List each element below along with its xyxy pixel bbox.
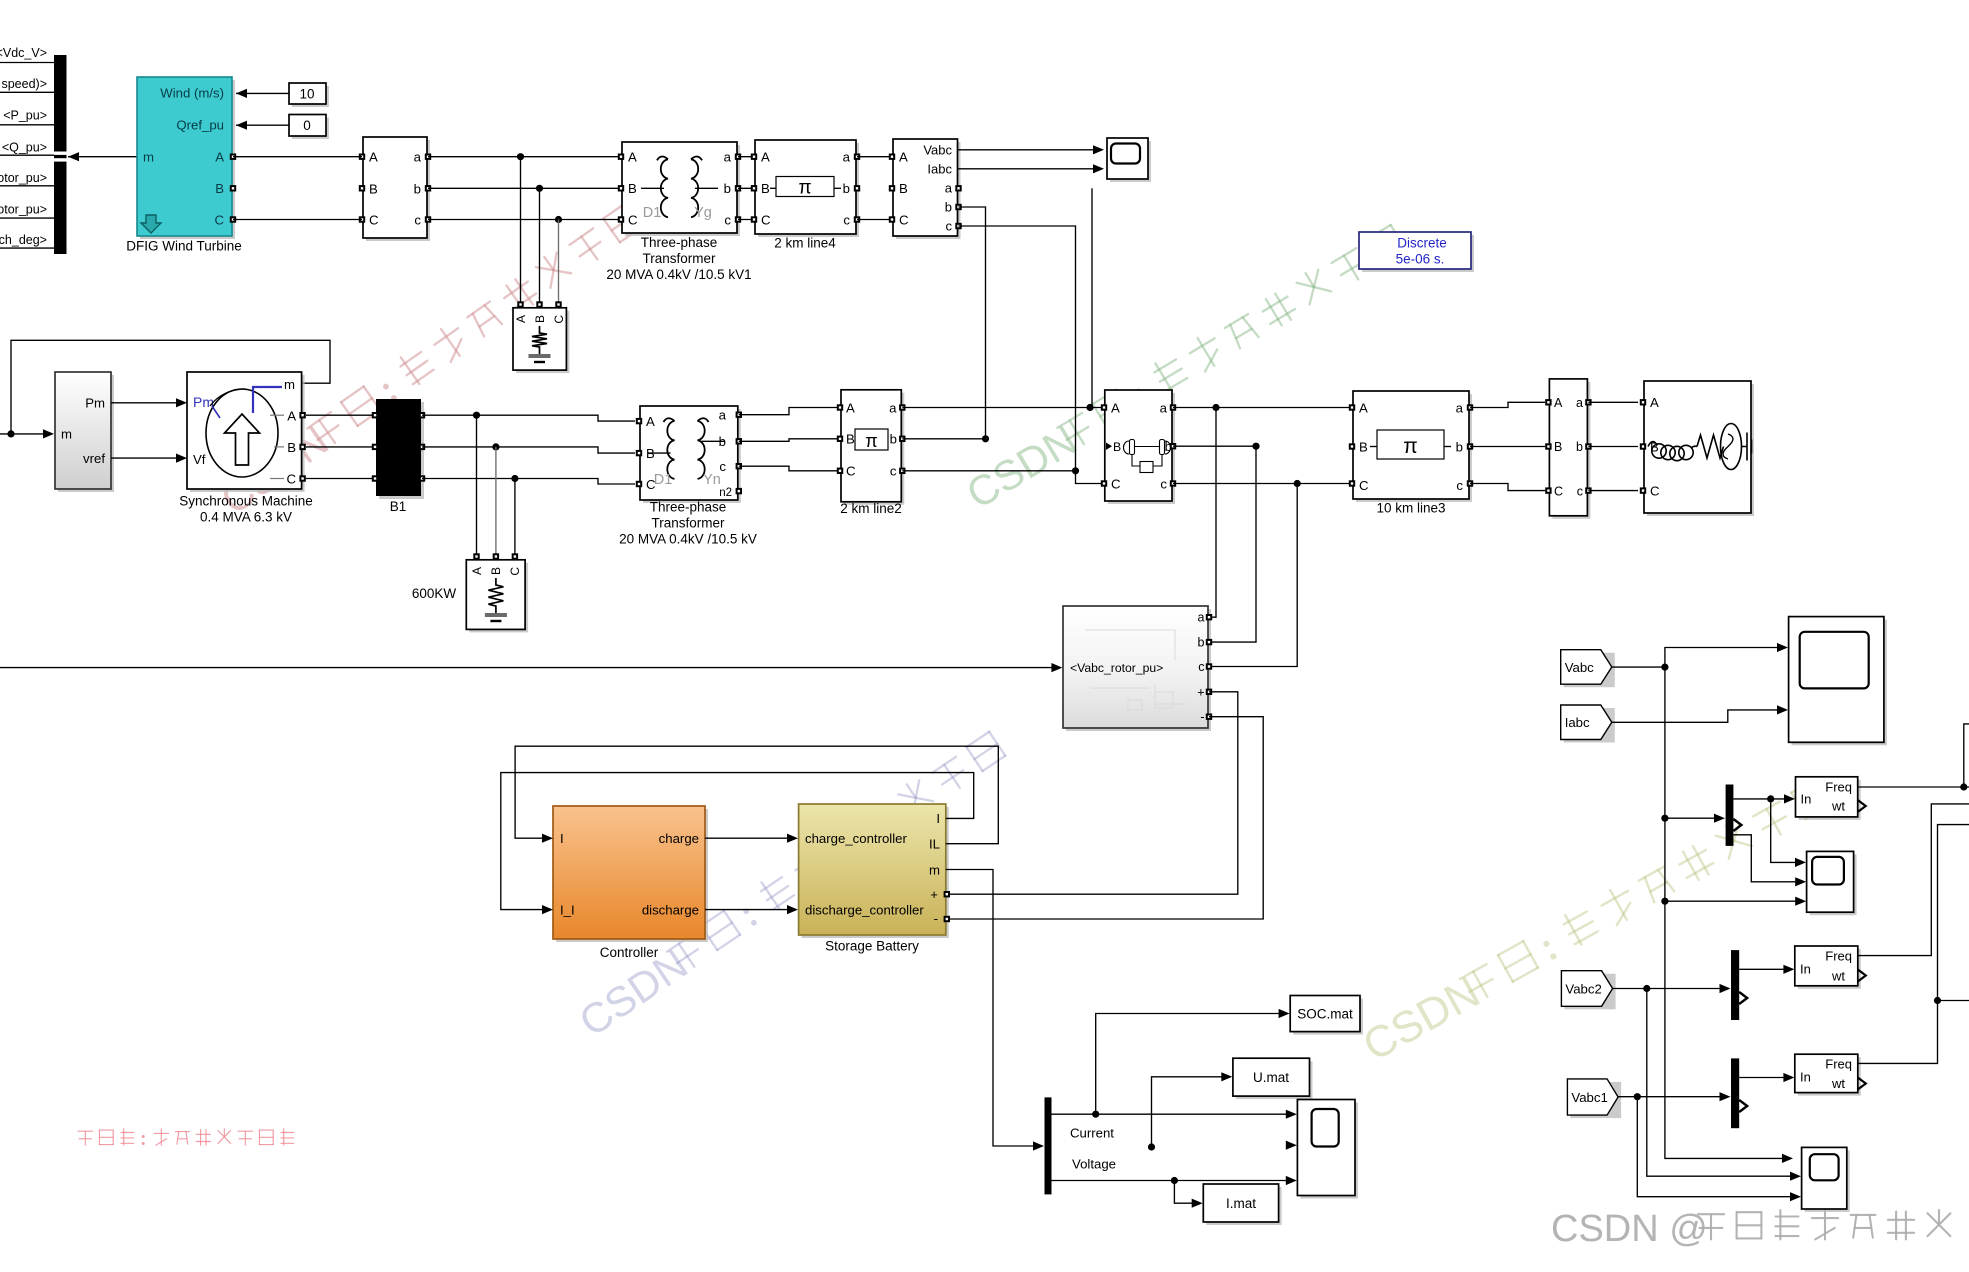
- pi-section line block 2 km line4: [758, 143, 859, 237]
- wire Vabc to big scope input1: [1665, 648, 1780, 668]
- svg-text:Iabc: Iabc: [927, 162, 952, 177]
- svg-text:wt: wt: [1831, 1076, 1845, 1091]
- svg-text:C: C: [508, 567, 522, 576]
- wire machine m feedback loop: [11, 340, 330, 434]
- wire Voltage output to scope: [1052, 1180, 1290, 1182]
- node Voltage tap to I.mat: [1171, 1177, 1178, 1184]
- wire Vabc2 to selector2: [1613, 988, 1723, 990]
- wire Vabc tag to node: [1612, 666, 1665, 668]
- svg-text:A: A: [1554, 396, 1563, 410]
- wire tap B down to load1: [539, 188, 541, 304]
- svg-text:b: b: [890, 432, 897, 447]
- wire T1 a to line4 A: [738, 156, 755, 158]
- svg-text:b: b: [1576, 440, 1583, 454]
- svg-text:Controller: Controller: [600, 945, 659, 960]
- node Vabc1 tap: [1634, 1093, 1641, 1100]
- node phase C junction with meas-c drop: [1072, 467, 1079, 474]
- svg-text:c: c: [724, 213, 731, 228]
- PLL block Freq2: [1798, 949, 1861, 989]
- svg-text:<Vdc_V>: <Vdc_V>: [0, 46, 47, 60]
- scope block (bottom right): [1805, 1150, 1850, 1212]
- watermark bottom-left WeChat account: [78, 1129, 294, 1145]
- controller subsystem block: [556, 809, 708, 942]
- svg-text:Vabc2: Vabc2: [1565, 982, 1601, 997]
- svg-text:U.mat: U.mat: [1253, 1070, 1289, 1085]
- wire tap down to scope2 input1: [1771, 799, 1800, 863]
- svg-text:IL: IL: [929, 837, 940, 852]
- svg-text:+: +: [1197, 686, 1204, 700]
- svg-text:π: π: [1403, 435, 1418, 458]
- from tag Vabc1: [1570, 1082, 1621, 1118]
- wire Freq1 output to right edge: [1858, 786, 1964, 788]
- node tap phase C to 600KW load: [511, 475, 518, 482]
- svg-text:10: 10: [299, 87, 314, 102]
- wire tap down to rotor-meas b: [1209, 446, 1256, 642]
- wire B2 c to transformer1 C: [428, 219, 622, 221]
- svg-text:C: C: [846, 464, 856, 479]
- svg-text:0.4 MVA 6.3 kV: 0.4 MVA 6.3 kV: [200, 510, 292, 525]
- wire line3 b to measurement B: [1470, 446, 1545, 448]
- svg-text:charge: charge: [659, 831, 699, 846]
- svg-text:Synchronous Machine: Synchronous Machine: [179, 494, 313, 509]
- watermark diagonal green CSDN blog: [958, 220, 1411, 518]
- wire line4 c to VI measurement C: [857, 219, 893, 221]
- wire B1 b to transformer2 B: [422, 447, 635, 453]
- wire Current output to scope: [1052, 1113, 1290, 1115]
- from tag Vabc: [1564, 653, 1615, 688]
- scope block (top): [1110, 141, 1151, 182]
- svg-text:<Q_pu>: <Q_pu>: [2, 141, 47, 155]
- three-phase measurement block (narrow): [1552, 382, 1590, 519]
- wire machine C to B1: [306, 478, 375, 480]
- signal selector1: [1726, 785, 1734, 846]
- svg-text:A: A: [761, 150, 770, 165]
- svg-text:Vabc: Vabc: [1565, 660, 1594, 675]
- wire battery IL feedback to controller I: [515, 746, 998, 844]
- svg-text:10 km line3: 10 km line3: [1376, 501, 1445, 516]
- wire B1 a to transformer2 A: [422, 415, 635, 421]
- to-file block I.mat: [1206, 1187, 1281, 1225]
- svg-text:B: B: [215, 181, 224, 196]
- svg-text:<Vabc_rotor_pu>: <Vabc_rotor_pu>: [1070, 661, 1163, 675]
- svg-text:Yg: Yg: [694, 205, 712, 221]
- Pm-vref source subsystem block: [58, 375, 114, 492]
- svg-text:In: In: [1800, 962, 1811, 977]
- svg-text:Vabc: Vabc: [923, 143, 952, 158]
- svg-text:b: b: [945, 200, 952, 215]
- constant block 0: [292, 118, 329, 140]
- wire tap to selector1: [1665, 817, 1718, 819]
- svg-text:wt: wt: [1831, 969, 1845, 984]
- svg-text:In: In: [1801, 792, 1812, 807]
- three-phase source block (grid equivalent): [1647, 384, 1754, 516]
- bus selector Bus1: [54, 55, 67, 254]
- wire line4 a to VI measurement A: [857, 156, 893, 158]
- watermark diagonal pink CSDN blog: [212, 198, 649, 524]
- svg-text:Iabc: Iabc: [1565, 715, 1590, 730]
- wire DFIG C to B2 C: [233, 219, 362, 221]
- svg-text:B: B: [899, 181, 908, 196]
- synchronous machine block: [190, 375, 305, 492]
- svg-text:D1: D1: [643, 205, 662, 221]
- node m input junction: [7, 430, 14, 437]
- svg-text:a: a: [945, 181, 953, 196]
- svg-text:600KW: 600KW: [412, 586, 457, 601]
- svg-text:C: C: [1554, 484, 1563, 498]
- svg-text:I: I: [936, 811, 940, 826]
- svg-text:B: B: [1113, 440, 1121, 454]
- node tap phase B to load: [536, 185, 543, 192]
- node Vabc junction: [1661, 664, 1668, 671]
- svg-text:c: c: [1456, 478, 1463, 493]
- wire T2 c to line2 C: [739, 466, 840, 471]
- pi-section line block 10 km line3: [1356, 394, 1472, 502]
- svg-text:discharge: discharge: [642, 903, 699, 918]
- svg-text:b: b: [414, 181, 421, 196]
- node phase b tap: [1252, 443, 1259, 450]
- svg-text:Vf: Vf: [193, 452, 206, 467]
- svg-text:n2: n2: [719, 487, 732, 499]
- svg-text:<P_pu>: <P_pu>: [3, 109, 47, 123]
- svg-text:b: b: [843, 181, 850, 196]
- node phase B junction with meas-b drop: [982, 435, 989, 442]
- pi-section line block 2 km line2: [844, 393, 904, 505]
- subsystem block Vabc_rotor_pu: [1066, 609, 1211, 731]
- wire line3 c to measurement C: [1470, 484, 1545, 491]
- node Vabc2 tap: [1643, 985, 1650, 992]
- wire line3 a to measurement A: [1470, 402, 1545, 407]
- svg-text:tch_deg>: tch_deg>: [0, 233, 47, 247]
- svg-text:B: B: [1554, 440, 1562, 454]
- svg-text:B: B: [369, 181, 378, 196]
- from tag Vabc2: [1564, 974, 1615, 1010]
- svg-text:b: b: [724, 181, 731, 196]
- wire tap C down to 600KW load: [514, 479, 516, 557]
- svg-text:b: b: [1165, 439, 1172, 454]
- wire Vabc to scope1 input1: [958, 149, 1100, 151]
- wire rotor-block + to battery +: [947, 692, 1238, 894]
- wire breaker a to line3 A: [1173, 407, 1352, 409]
- wire T2 a to line2 A: [739, 408, 840, 415]
- wire Iabc to big scope input2: [1612, 710, 1780, 722]
- node Current tap to SOC.mat: [1092, 1111, 1099, 1118]
- wire charge to charge_controller: [705, 837, 792, 839]
- wire tap B down to 600KW load: [495, 447, 497, 556]
- three-phase breaker block: [1108, 393, 1175, 504]
- three-phase measurement block B2: [366, 140, 430, 241]
- svg-text:c: c: [843, 213, 850, 228]
- svg-text:20 MVA 0.4kV /10.5 kV1: 20 MVA 0.4kV /10.5 kV1: [606, 267, 751, 282]
- svg-text:2 km line2: 2 km line2: [840, 501, 902, 516]
- three-phase transformer T2 (D1/Yn): [643, 409, 741, 503]
- svg-text:CSDN @: CSDN @: [1551, 1208, 1708, 1250]
- wire vref to machine Vf input: [111, 457, 181, 459]
- wire constant 10 to Wind input: [236, 89, 247, 98]
- svg-text:m: m: [929, 863, 940, 878]
- svg-text:5e-06 s.: 5e-06 s.: [1396, 252, 1445, 267]
- signal selector2: [1731, 950, 1739, 1020]
- svg-text:c: c: [1198, 660, 1204, 674]
- wire T1 c to line4 C: [738, 219, 755, 221]
- svg-text:Current: Current: [1070, 1126, 1114, 1141]
- three-phase V-I measurement block: [896, 142, 961, 239]
- svg-text:discharge_controller: discharge_controller: [805, 903, 924, 918]
- node selector1 tap: [1661, 815, 1668, 822]
- svg-text:A: A: [215, 150, 224, 165]
- svg-text:a: a: [843, 150, 851, 165]
- svg-text:C: C: [552, 315, 566, 324]
- svg-text:m: m: [284, 377, 295, 392]
- wire measurement b to source B: [1588, 446, 1638, 448]
- svg-text:A: A: [846, 400, 855, 415]
- wire B2 b to transformer1 B: [428, 187, 622, 189]
- svg-text:Pm: Pm: [85, 396, 105, 411]
- wire selector1 lower output to scope2 input2: [1733, 835, 1799, 882]
- svg-text:In: In: [1800, 1070, 1811, 1085]
- svg-text:charge_controller: charge_controller: [805, 831, 908, 846]
- svg-text:A: A: [899, 150, 908, 165]
- wire DFIG m output to bus selector: [68, 152, 79, 161]
- svg-text:C: C: [214, 213, 224, 228]
- node Vabc trunk tap to scope2 input3: [1661, 898, 1668, 905]
- svg-text:G speed)>: G speed)>: [0, 77, 47, 91]
- svg-text:A: A: [628, 150, 637, 165]
- svg-text:a: a: [889, 400, 897, 415]
- from tag Iabc: [1564, 708, 1615, 743]
- wire T1 b to line4 B: [738, 187, 755, 189]
- svg-text:A: A: [1111, 401, 1120, 416]
- svg-text:-: -: [934, 911, 938, 926]
- wire Pm to machine Pm input: [111, 402, 181, 404]
- svg-text:Three-phase: Three-phase: [650, 500, 727, 515]
- svg-text:C: C: [1359, 478, 1369, 493]
- wire tap down to rotor-meas c: [1209, 484, 1297, 667]
- node Freq1 input tap: [1767, 795, 1774, 802]
- svg-text:-: -: [1200, 710, 1204, 724]
- svg-text:B: B: [846, 432, 855, 447]
- svg-text:a: a: [414, 150, 422, 165]
- svg-text:Qref_pu: Qref_pu: [176, 118, 224, 133]
- PLL block Freq3: [1798, 1057, 1861, 1095]
- svg-text:B1: B1: [390, 499, 407, 514]
- svg-text:B: B: [628, 181, 637, 196]
- to-file block U.mat: [1236, 1061, 1313, 1099]
- svg-text:a: a: [1576, 396, 1583, 410]
- svg-text:C: C: [1111, 477, 1121, 492]
- svg-text:rotor_pu>: rotor_pu>: [0, 171, 47, 185]
- watermark diagonal lavender CSDN blog: [571, 727, 1012, 1046]
- wire node down into breaker C: [1076, 471, 1105, 484]
- wire tap down to I.mat: [1174, 1181, 1195, 1204]
- wire Vabc trunk down: [1665, 667, 1786, 1158]
- svg-text:wt: wt: [1831, 799, 1845, 814]
- node tap phase A to load: [517, 153, 524, 160]
- svg-text:A: A: [470, 567, 484, 575]
- svg-text:b: b: [1198, 636, 1205, 650]
- watermark bottom-right CSDN signature: [1551, 1208, 1950, 1250]
- svg-text:Storage Battery: Storage Battery: [825, 939, 919, 954]
- svg-text:A: A: [287, 409, 296, 424]
- svg-text:Voltage: Voltage: [1072, 1157, 1116, 1172]
- svg-text:C: C: [286, 472, 296, 487]
- wire selector2 to Freq2 In: [1739, 968, 1787, 970]
- wire measurement c to source C: [1588, 490, 1638, 492]
- scope block (small right): [1810, 854, 1857, 915]
- svg-text:I_I: I_I: [560, 903, 575, 918]
- svg-text:Yn: Yn: [703, 472, 721, 488]
- svg-text:SOC.mat: SOC.mat: [1297, 1007, 1353, 1022]
- svg-text:C: C: [369, 213, 379, 228]
- node right trunk junction: [1934, 997, 1941, 1004]
- wire tap C down to load1: [558, 220, 560, 305]
- three-phase transformer T1 (D1/Yg): [625, 145, 740, 236]
- wire breaker b to node: [1173, 445, 1256, 447]
- svg-text:c: c: [890, 464, 897, 479]
- wire line2 c to node: [902, 470, 1075, 472]
- wire tap A down to 600KW load: [476, 415, 478, 556]
- wire machine A to B1: [306, 414, 375, 416]
- 600KW three-phase load block: [473, 553, 479, 559]
- svg-text:Vabc1: Vabc1: [1571, 1090, 1607, 1105]
- svg-text:20 MVA 0.4kV /10.5 kV: 20 MVA 0.4kV /10.5 kV: [619, 532, 757, 547]
- svg-text:B: B: [761, 181, 770, 196]
- svg-text:DFIG Wind Turbine: DFIG Wind Turbine: [126, 239, 242, 254]
- svg-text:C: C: [761, 213, 771, 228]
- node phase A tap to rotor-meas block: [1212, 404, 1219, 411]
- scope block (battery): [1300, 1103, 1358, 1199]
- node tap phase C to load: [555, 216, 562, 223]
- constant block 10: [292, 86, 329, 107]
- wire Iabc to scope1 input2: [958, 168, 1100, 170]
- watermark diagonal yellow-green CSDN blog: [1355, 774, 1837, 1071]
- storage battery subsystem block: [802, 807, 949, 938]
- svg-text:A: A: [1650, 395, 1659, 410]
- demux bus selector (battery measurements): [1045, 1097, 1052, 1194]
- svg-text:π: π: [798, 178, 811, 199]
- svg-text:c: c: [1160, 477, 1167, 492]
- svg-text:Freq: Freq: [1825, 780, 1852, 795]
- svg-text:a: a: [1456, 400, 1464, 415]
- node phase c tap: [1294, 480, 1301, 487]
- wire T2 b to line2 B: [739, 439, 840, 442]
- svg-text:Transformer: Transformer: [651, 516, 725, 531]
- svg-text:Freq: Freq: [1825, 1057, 1852, 1072]
- svg-text:c: c: [946, 219, 953, 234]
- wire DFIG A to B2 A: [233, 156, 362, 158]
- node Freq1 output junction: [1960, 783, 1967, 790]
- svg-text:D1: D1: [654, 472, 673, 488]
- svg-text:b: b: [1456, 439, 1463, 454]
- DFIG Wind Turbine block: [140, 80, 235, 239]
- wire Vabc1 tap down to scope3 input3: [1637, 1097, 1793, 1197]
- bus bar block B1: [379, 402, 424, 499]
- svg-text:B: B: [489, 567, 503, 575]
- wire right edge stub upper: [1964, 724, 1969, 787]
- wire meas c down to bus C node: [959, 226, 1076, 471]
- svg-text:c: c: [414, 213, 421, 228]
- scope block (large): [1792, 620, 1887, 746]
- wire meas a down to bus A node: [1091, 188, 1093, 407]
- svg-text:C: C: [1650, 484, 1660, 499]
- svg-text:C: C: [899, 213, 909, 228]
- three-phase load block (top): [517, 301, 523, 307]
- wire B1 c to transformer2 C: [422, 479, 635, 485]
- powergui block Discrete 5e-06 s: [1362, 235, 1474, 272]
- svg-text:A: A: [646, 414, 655, 429]
- svg-text:π: π: [865, 431, 877, 451]
- wire machine B to B1: [306, 446, 375, 448]
- svg-text:I: I: [560, 831, 564, 846]
- wire meas b down to bus B node: [959, 207, 986, 439]
- svg-text:Discrete: Discrete: [1397, 236, 1447, 251]
- wire battery m down to demux: [946, 870, 1036, 1147]
- wire tap up to SOC.mat: [1096, 1014, 1282, 1115]
- svg-text:a: a: [719, 408, 727, 423]
- svg-text:m: m: [143, 150, 154, 165]
- wire left edge to m input: [0, 433, 48, 435]
- svg-text:Freq: Freq: [1825, 949, 1852, 964]
- svg-text:a: a: [1198, 611, 1205, 625]
- svg-text:vref: vref: [83, 451, 105, 466]
- svg-text:0: 0: [303, 118, 311, 133]
- svg-text:Wind (m/s): Wind (m/s): [160, 86, 224, 101]
- svg-text:B: B: [287, 440, 296, 455]
- wire tap A down to load1: [520, 157, 522, 304]
- wire discharge to discharge_controller: [705, 909, 792, 911]
- wire breaker c to line3 C: [1173, 483, 1352, 485]
- wire B2 a to transformer1 A: [428, 156, 622, 158]
- svg-text:+: +: [930, 887, 938, 902]
- svg-text:Transformer: Transformer: [642, 251, 716, 266]
- signal selector3: [1731, 1058, 1739, 1128]
- wire line2 a to breaker A: [902, 407, 1104, 409]
- wire rotor-block - to battery -: [947, 717, 1263, 919]
- wire Vabc1 to selector3: [1618, 1096, 1723, 1098]
- wire selector3 to Freq3 In: [1739, 1077, 1787, 1079]
- svg-text:rotor_pu>: rotor_pu>: [0, 203, 47, 217]
- svg-text:B: B: [1359, 439, 1368, 454]
- svg-text:c: c: [1577, 484, 1583, 498]
- svg-text:C: C: [628, 213, 638, 228]
- svg-text:A: A: [1359, 400, 1368, 415]
- svg-text:2 km line4: 2 km line4: [774, 236, 836, 251]
- wire line2 b to node: [902, 438, 985, 440]
- wire battery I feedback to controller I_I: [501, 773, 974, 910]
- to-file block SOC.mat: [1293, 999, 1363, 1035]
- node phase A junction with meas-a drop: [1086, 404, 1093, 411]
- wire trunk tap to scope2 input3: [1665, 900, 1799, 902]
- svg-text:a: a: [724, 150, 732, 165]
- svg-text:B: B: [533, 315, 547, 323]
- wire tap down to rotor-meas a: [1209, 408, 1216, 618]
- wire U.mat tap: [1152, 1077, 1226, 1147]
- svg-text:a: a: [1160, 401, 1168, 416]
- node tap phase A to 600KW load: [473, 412, 480, 419]
- svg-text:Pm: Pm: [193, 394, 214, 410]
- wire selector1 to Freq1 In: [1733, 798, 1788, 800]
- svg-text:m: m: [61, 427, 72, 442]
- wire left edge to Vabc_rotor input: [0, 667, 1054, 669]
- wire Vabc2 tap down to scope3 input2: [1647, 989, 1793, 1177]
- PLL block Freq1: [1799, 780, 1861, 820]
- node tap phase B to 600KW load: [492, 443, 499, 450]
- wire Freq2 output up to right edge: [1858, 804, 1969, 956]
- svg-text:A: A: [369, 150, 378, 165]
- svg-text:A: A: [514, 315, 528, 323]
- wire right trunk stub: [1938, 1000, 1969, 1002]
- wire measurement a to source A: [1588, 401, 1638, 403]
- wire Freq3 output to right edge trunk: [1858, 825, 1969, 1064]
